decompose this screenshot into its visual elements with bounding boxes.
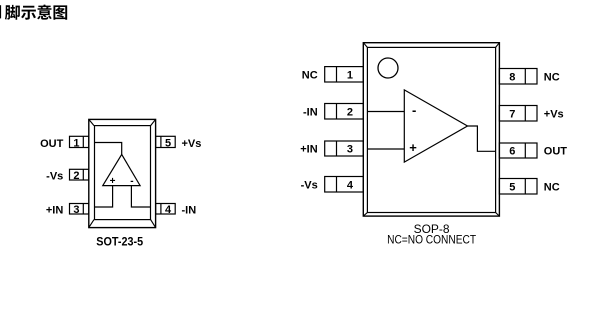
svg-text:1: 1 [73,137,79,149]
svg-text:4: 4 [165,204,172,216]
svg-text:OUT: OUT [544,146,568,158]
svg-text:8: 8 [509,71,515,83]
svg-text:NC: NC [544,181,560,193]
svg-text:NC: NC [544,71,560,83]
svg-text:+: + [409,140,417,155]
svg-text:6: 6 [509,146,515,158]
svg-text:+IN: +IN [300,144,317,156]
svg-text:NC=NO CONNECT: NC=NO CONNECT [387,233,477,247]
svg-text:2: 2 [73,170,79,182]
svg-text:4: 4 [347,179,354,191]
svg-text:3: 3 [347,144,353,156]
svg-text:3: 3 [73,204,79,216]
svg-text:+Vs: +Vs [182,138,202,150]
svg-text:1: 1 [347,69,353,81]
svg-text:-IN: -IN [182,204,197,216]
svg-text:5: 5 [165,137,171,149]
svg-text:5: 5 [509,181,515,193]
svg-text:2: 2 [347,106,353,118]
svg-text:-Vs: -Vs [301,179,318,191]
svg-text:-Vs: -Vs [46,171,63,183]
svg-text:-IN: -IN [303,106,318,118]
svg-text:7: 7 [509,108,515,120]
svg-text:+Vs: +Vs [544,108,564,120]
svg-text:-: - [412,102,416,117]
svg-text:SOT-23-5: SOT-23-5 [96,234,143,248]
svg-text:+: + [110,176,116,187]
svg-text:-: - [130,176,133,187]
svg-text:OUT: OUT [40,138,64,150]
svg-text:+IN: +IN [46,205,63,217]
svg-text:NC: NC [302,69,318,81]
